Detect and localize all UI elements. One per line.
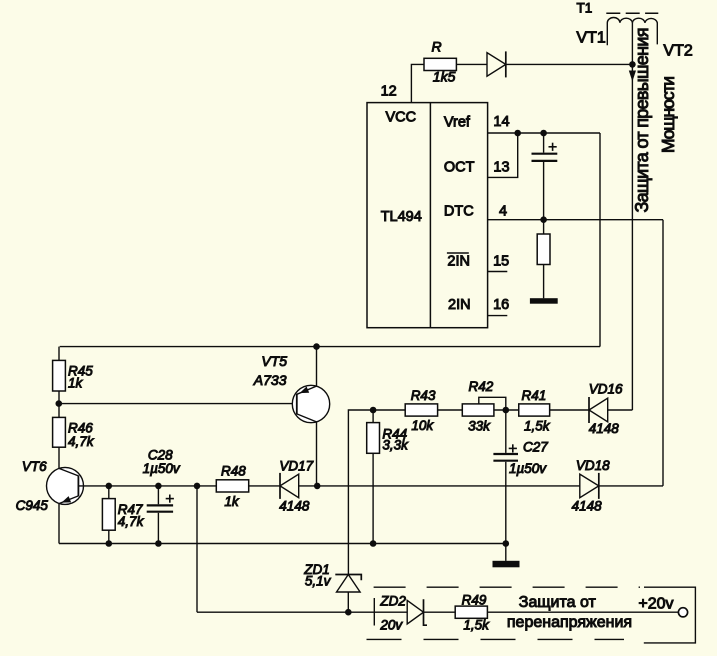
wire Vref to capacitor bbox=[543, 133, 545, 153]
svg-text:VD18: VD18 bbox=[576, 458, 610, 473]
wiper R42 bbox=[479, 397, 506, 409]
wire center-tap vertical bbox=[631, 23, 633, 410]
dashed box right cap bbox=[644, 587, 696, 643]
svg-text:R48: R48 bbox=[221, 464, 246, 479]
node R47 top bbox=[106, 483, 113, 490]
svg-text:OCT: OCT bbox=[444, 160, 475, 176]
svg-text:4: 4 bbox=[499, 203, 507, 219]
svg-text:R: R bbox=[432, 38, 442, 54]
wire pin12 to resistor R bbox=[411, 64, 424, 103]
wire DTC node to resistor bbox=[543, 220, 545, 234]
svg-text:16: 16 bbox=[493, 297, 509, 313]
dashed box left dash bbox=[373, 598, 375, 626]
ground (DTC) bbox=[530, 298, 558, 304]
dashed box bottom edge bbox=[367, 638, 625, 640]
wire pin14 Vref bbox=[488, 132, 600, 134]
transistor VT6 base bar bbox=[77, 476, 79, 497]
svg-text:VT2: VT2 bbox=[663, 42, 692, 59]
wire C27 bottom bbox=[505, 462, 507, 544]
node R44 top bbox=[370, 407, 377, 414]
wire R41 to VD16 bbox=[550, 409, 589, 411]
wire to ground 2 bbox=[505, 544, 507, 561]
wire R to diode bbox=[456, 63, 487, 65]
node R47 bottom bbox=[106, 540, 113, 547]
ground (bottom) bbox=[493, 561, 520, 568]
node R44 bottom bbox=[370, 540, 377, 547]
transistor VT5 collector diagonal bbox=[297, 414, 317, 422]
resistor R48 bbox=[216, 480, 248, 492]
wire R47 bottom bbox=[108, 530, 110, 543]
resistor R45 bbox=[53, 360, 66, 391]
node C28 bottom bbox=[155, 540, 162, 547]
wire row to ZD2 bbox=[197, 611, 407, 613]
wire node to R46 bbox=[58, 404, 60, 418]
wire R48 to VD17 bbox=[249, 485, 280, 487]
svg-text:+20v: +20v bbox=[638, 596, 673, 613]
diode D bbox=[487, 53, 506, 77]
svg-text:R43: R43 bbox=[411, 388, 436, 403]
svg-text:VCC: VCC bbox=[386, 110, 417, 126]
polarity + (C27) bbox=[509, 447, 517, 449]
wire VD17 to VT5 collector bbox=[299, 485, 318, 487]
svg-text:Защита от: Защита от bbox=[519, 594, 597, 611]
svg-text:1µ50v: 1µ50v bbox=[143, 461, 181, 476]
wire VT5 emitter up bbox=[316, 347, 318, 387]
svg-text:1k: 1k bbox=[224, 494, 240, 509]
svg-text:5,1v: 5,1v bbox=[305, 574, 332, 589]
svg-text:R42: R42 bbox=[469, 379, 494, 394]
wire capacitor to DTC node bbox=[543, 162, 545, 220]
node C28 top bbox=[155, 483, 162, 490]
svg-text:1k: 1k bbox=[68, 376, 84, 391]
wire VT5 base bbox=[59, 403, 297, 405]
svg-text:4148: 4148 bbox=[572, 499, 603, 514]
wire R43 to R42 bbox=[438, 409, 462, 411]
svg-text:3,3k: 3,3k bbox=[382, 438, 409, 453]
wire R49 to terminal bbox=[487, 611, 678, 613]
polarity + (C28) bbox=[166, 498, 174, 500]
diode VD17 bbox=[280, 474, 299, 498]
node ZD1 bottom junction bbox=[345, 609, 352, 616]
node R42-R41-C27 junction bbox=[503, 407, 510, 414]
wire bottom rail bbox=[59, 543, 506, 545]
wire R44 bottom bbox=[372, 453, 374, 543]
svg-text:VT5: VT5 bbox=[261, 353, 287, 369]
resistor R bbox=[424, 58, 456, 70]
wire R47 top bbox=[108, 486, 110, 499]
node C27 bottom bbox=[503, 540, 510, 547]
svg-text:TL494: TL494 bbox=[381, 209, 422, 225]
transistor VT6 body bbox=[47, 467, 84, 504]
wire Vref feedback vertical bbox=[599, 133, 601, 347]
diode VD18 bbox=[580, 474, 599, 498]
svg-text:33k: 33k bbox=[468, 419, 491, 434]
svg-text:13: 13 bbox=[493, 160, 509, 176]
svg-text:C945: C945 bbox=[16, 498, 49, 513]
svg-text:12: 12 bbox=[381, 84, 397, 100]
wire R45 to node bbox=[58, 391, 60, 404]
resistor R47 bbox=[102, 499, 115, 531]
wire VD16 to center-tap vertical bbox=[608, 409, 633, 411]
svg-text:R49: R49 bbox=[462, 592, 487, 607]
transistor VT5 emitter diagonal bbox=[297, 386, 317, 394]
svg-text:C27: C27 bbox=[523, 440, 548, 455]
transformer T1 core bbox=[606, 12, 658, 14]
capacitor C (Vref) bbox=[532, 153, 558, 155]
zener ZD2 bbox=[407, 600, 423, 624]
node Vref-OCT junction bbox=[514, 130, 521, 137]
node center-tap junction bbox=[629, 61, 636, 68]
svg-text:4148: 4148 bbox=[279, 499, 310, 514]
wire ZD2 to R49 bbox=[424, 611, 456, 613]
svg-text:Vref: Vref bbox=[444, 114, 471, 130]
svg-text:1,5k: 1,5k bbox=[524, 419, 551, 434]
transistor VT6 emitter arrow bbox=[62, 496, 72, 503]
transistor VT5 base bar bbox=[296, 394, 298, 415]
polarity + (Vref cap) bbox=[549, 146, 557, 148]
wire VD18 to DTC vertical bbox=[599, 485, 663, 487]
wire base-rail branch down bbox=[196, 486, 198, 612]
svg-text:2IN: 2IN bbox=[448, 297, 471, 313]
wire pin4 DTC bbox=[488, 219, 663, 221]
wire R42 to R41 bbox=[494, 409, 519, 411]
transformer T1 winding VT1 half bbox=[607, 17, 632, 45]
svg-text:VD16: VD16 bbox=[589, 382, 623, 397]
wire C28 top bbox=[157, 486, 159, 504]
svg-text:перенапряжения: перенапряжения bbox=[507, 614, 632, 631]
svg-text:Защита от превышения: Защита от превышения bbox=[632, 28, 652, 213]
svg-text:4,7k: 4,7k bbox=[118, 514, 145, 529]
svg-text:R41: R41 bbox=[522, 388, 547, 403]
wire VT6 emitter down bbox=[58, 503, 60, 543]
wire VT6 base rail bbox=[78, 485, 216, 487]
svg-text:A733: A733 bbox=[253, 372, 287, 388]
resistor R43 bbox=[405, 404, 437, 416]
wire pin15 stub bbox=[488, 271, 508, 273]
resistor R49 bbox=[455, 606, 487, 618]
zener ZD1 bbox=[337, 575, 361, 593]
dashed box top edge bbox=[374, 586, 640, 588]
op-amp U1 TL494 body bbox=[367, 103, 488, 328]
wire rail to VD18 bbox=[317, 485, 580, 487]
svg-text:T1: T1 bbox=[577, 1, 593, 16]
wire top rail bbox=[60, 346, 600, 348]
transformer T1 winding VT2 half bbox=[632, 18, 657, 44]
svg-text:4,7k: 4,7k bbox=[68, 434, 95, 449]
wire R43 row to ZD1 bbox=[348, 410, 404, 575]
wire VT5 collector down bbox=[316, 422, 318, 486]
svg-text:2IN: 2IN bbox=[447, 254, 470, 270]
svg-text:VT1: VT1 bbox=[576, 30, 605, 47]
svg-text:VD17: VD17 bbox=[279, 458, 313, 473]
wire C28 bottom bbox=[157, 513, 159, 544]
wire pin13 OCT loop bbox=[488, 133, 518, 177]
node VT5 emitter junction bbox=[313, 343, 320, 350]
svg-text:1k5: 1k5 bbox=[433, 69, 456, 85]
wire DTC to VD18 vertical bbox=[662, 220, 664, 486]
op-amp U1 divider bbox=[429, 103, 431, 328]
diode VD16 bbox=[589, 398, 608, 422]
node DTC junction bbox=[540, 216, 547, 223]
capacitor C27 bbox=[493, 453, 518, 455]
svg-text:14: 14 bbox=[493, 114, 509, 130]
svg-text:10k: 10k bbox=[411, 418, 434, 433]
resistor R46 bbox=[53, 417, 66, 447]
current arrow on center-tap bbox=[629, 71, 636, 82]
wire pin16 stub bbox=[488, 315, 508, 317]
node Vref-cap junction bbox=[540, 130, 547, 137]
svg-text:VT6: VT6 bbox=[22, 459, 47, 474]
svg-text:20v: 20v bbox=[379, 618, 403, 633]
svg-text:1,5k: 1,5k bbox=[463, 618, 490, 633]
svg-text:ZD2: ZD2 bbox=[379, 594, 406, 609]
resistor R41 bbox=[519, 404, 550, 416]
wire ZD1 to row bbox=[347, 592, 349, 612]
wire diode to center-tap bbox=[506, 63, 633, 65]
wire R44 top bbox=[372, 410, 374, 423]
resistor (DTC timing) bbox=[537, 234, 550, 265]
svg-text:DTC: DTC bbox=[444, 204, 474, 220]
node VD17-VT5 junction bbox=[314, 483, 321, 490]
node ZD2 branch bbox=[194, 483, 201, 490]
resistor R44 bbox=[367, 423, 380, 454]
wire rail to R45 bbox=[58, 347, 60, 361]
svg-text:15: 15 bbox=[493, 254, 509, 270]
capacitor C28 bbox=[147, 504, 173, 506]
node R45-R46 junction bbox=[56, 400, 63, 407]
wire R46 to VT6 bbox=[58, 447, 60, 468]
terminal +20v bbox=[678, 608, 687, 617]
wire C27 top bbox=[505, 410, 507, 453]
resistor R42 bbox=[462, 404, 494, 416]
transistor VT5 body bbox=[292, 385, 329, 422]
wire resistor to ground bbox=[543, 265, 545, 299]
svg-text:Мощности: Мощности bbox=[658, 76, 678, 153]
svg-text:1µ50v: 1µ50v bbox=[509, 461, 547, 476]
transistor VT5 emitter arrow bbox=[300, 387, 310, 394]
svg-text:4148: 4148 bbox=[589, 421, 620, 436]
transistor VT6 collector diagonal bbox=[59, 468, 78, 476]
transistor VT6 emitter diagonal bbox=[60, 496, 79, 504]
